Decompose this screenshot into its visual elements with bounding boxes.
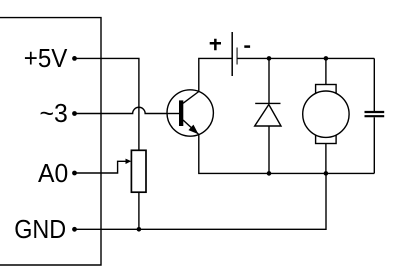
- board U1 (microcontroller outline, open at left): [0, 18, 101, 265]
- wire battery negative to top rail: [237, 57, 374, 59]
- motor M1 top brush block: [316, 85, 337, 97]
- transistor Q1 circle: [167, 90, 213, 136]
- node A0 pin terminal: [72, 171, 77, 176]
- svg-text:~3: ~3: [40, 98, 68, 128]
- wire ~3 pin to transistor base (with hop over +5V wire): [75, 107, 180, 113]
- wire emitter bottom rail: [199, 134, 374, 173]
- motor M1 body circle: [303, 91, 349, 137]
- wire collector to battery positive rail: [199, 58, 232, 91]
- node ~3 pin terminal: [72, 111, 77, 116]
- diode D1 triangle: [255, 105, 281, 127]
- svg-text:+5V: +5V: [24, 43, 68, 73]
- transistor Q1 collector diagonal: [183, 92, 199, 104]
- potentiometer R1 body: [131, 150, 146, 192]
- diode D1 cathode bar: [255, 102, 280, 104]
- battery BT1 minus label: [244, 45, 250, 48]
- wire potentiometer bottom to GND wire: [138, 192, 140, 229]
- transistor Q1 emitter arrowhead: [188, 125, 198, 135]
- node motor bottom / ground junction: [324, 171, 329, 176]
- battery BT1 long plate (positive): [231, 32, 233, 76]
- wire capacitor top lead: [373, 58, 375, 111]
- node diode bottom junction: [267, 171, 272, 176]
- transistor Q1 base wire inside circle: [167, 113, 179, 115]
- wire diode bottom lead: [268, 126, 270, 173]
- wire A0 pin to potentiometer wiper: [75, 161, 127, 173]
- svg-text:GND: GND: [14, 214, 66, 244]
- node motor top junction: [324, 56, 329, 61]
- wiper arrowhead: [126, 159, 132, 164]
- battery BT1 plus label: [210, 39, 221, 51]
- wire capacitor bottom lead: [373, 117, 375, 173]
- node +5V pin terminal: [72, 56, 77, 61]
- wire motor top lead: [325, 58, 327, 84]
- transistor Q1 base bar: [179, 100, 183, 126]
- svg-text:A0: A0: [38, 158, 68, 188]
- wire diode top lead: [268, 58, 270, 103]
- node potentiometer/GND junction: [137, 227, 142, 232]
- wire motor bottom lead: [325, 144, 327, 174]
- battery BT1 short plate (negative): [236, 48, 238, 65]
- node GND pin terminal: [72, 227, 77, 232]
- wire +5V pin to potentiometer top: [75, 58, 139, 150]
- wire GND pin to motor-bottom junction: [75, 173, 327, 229]
- capacitor C1 top plate: [365, 111, 385, 113]
- motor M1 bottom brush block: [316, 132, 337, 144]
- node diode top junction: [267, 56, 272, 61]
- capacitor C1 bottom plate: [365, 115, 385, 117]
- transistor Q1 emitter diagonal: [183, 120, 199, 135]
